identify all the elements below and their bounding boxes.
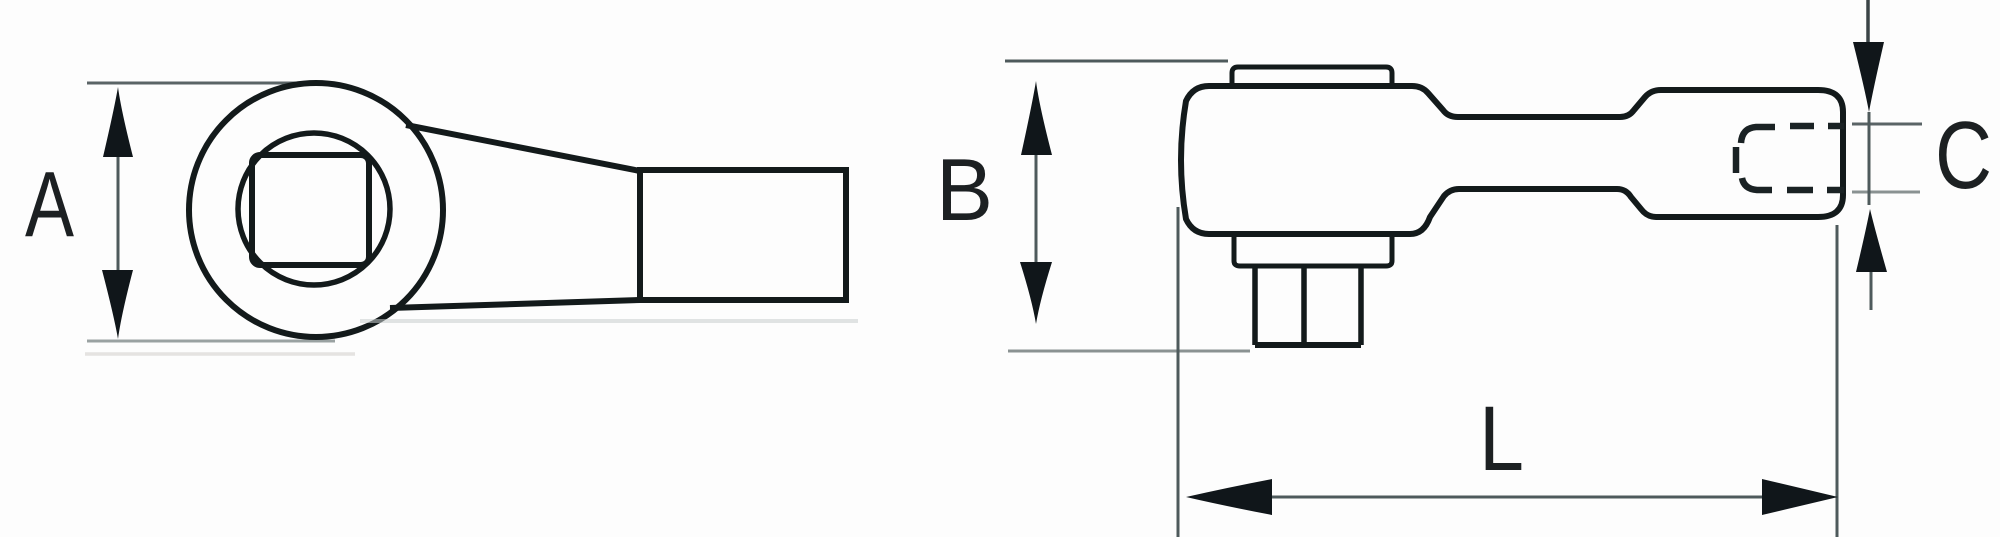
- hidden socket dashed outline bottom-left corner dash: [1742, 178, 1772, 190]
- hidden socket dashed outline top-left corner dash: [1741, 127, 1775, 143]
- hidden socket dashed outline top dash 2: [1790, 123, 1814, 130]
- faint scan artifact line: [360, 319, 858, 323]
- arm top line: [406, 125, 640, 171]
- dimension C bottom extension line: [1852, 191, 1920, 194]
- dimension C down arrowhead: [1853, 42, 1884, 112]
- dimension L right extension line: [1836, 225, 1839, 537]
- svg-text:B: B: [936, 140, 993, 239]
- dimension A line: [117, 150, 120, 275]
- dimension A top arrowhead: [103, 87, 133, 157]
- square drive bottom edge: [1255, 342, 1361, 348]
- dimension L right arrowhead: [1762, 479, 1838, 515]
- dimension C lower line: [1870, 272, 1873, 310]
- dimension B top extension line: [1005, 60, 1228, 63]
- handle end rectangle: [640, 170, 846, 300]
- dimension C up arrowhead: [1856, 209, 1887, 272]
- square drive right edge: [1358, 268, 1364, 345]
- hidden socket dashed outline top dash 3: [1828, 123, 1844, 130]
- ring outer circle: [189, 83, 443, 337]
- dimension L left arrowhead: [1186, 479, 1272, 515]
- dimension B bottom extension line: [1008, 350, 1250, 353]
- dimension L left extension line: [1177, 207, 1180, 537]
- arm bottom line: [390, 300, 640, 308]
- hidden socket dashed outline bottom dash 2: [1787, 187, 1813, 194]
- dimension A top extension line: [87, 82, 302, 85]
- dimension C top extension line: [1852, 123, 1922, 126]
- dimension C upper line: [1866, 0, 1870, 45]
- svg-text:A: A: [25, 152, 74, 256]
- ring inner circle: [238, 133, 390, 285]
- square drive left edge: [1252, 268, 1258, 345]
- dimension L line: [1265, 496, 1770, 499]
- svg-text:L: L: [1479, 388, 1524, 490]
- head bottom flange: [1234, 235, 1392, 266]
- dimension B top arrowhead: [1021, 81, 1052, 155]
- dimension C middle line: [1868, 112, 1871, 205]
- faint scan artifact line lower: [85, 352, 355, 356]
- head top cap: [1232, 67, 1392, 87]
- ratchet body outline: [1181, 86, 1843, 234]
- square drive middle edge: [1301, 268, 1307, 345]
- dimension B line: [1035, 150, 1038, 266]
- dimension A bottom arrowhead: [102, 270, 133, 339]
- hidden socket dashed outline left side dash: [1733, 147, 1740, 173]
- square hole: [252, 155, 369, 265]
- dimension A bottom extension line: [87, 340, 335, 343]
- dimension B bottom arrowhead: [1020, 262, 1052, 324]
- hidden socket dashed outline bottom dash 3: [1827, 187, 1844, 194]
- svg-text:C: C: [1935, 102, 1992, 209]
